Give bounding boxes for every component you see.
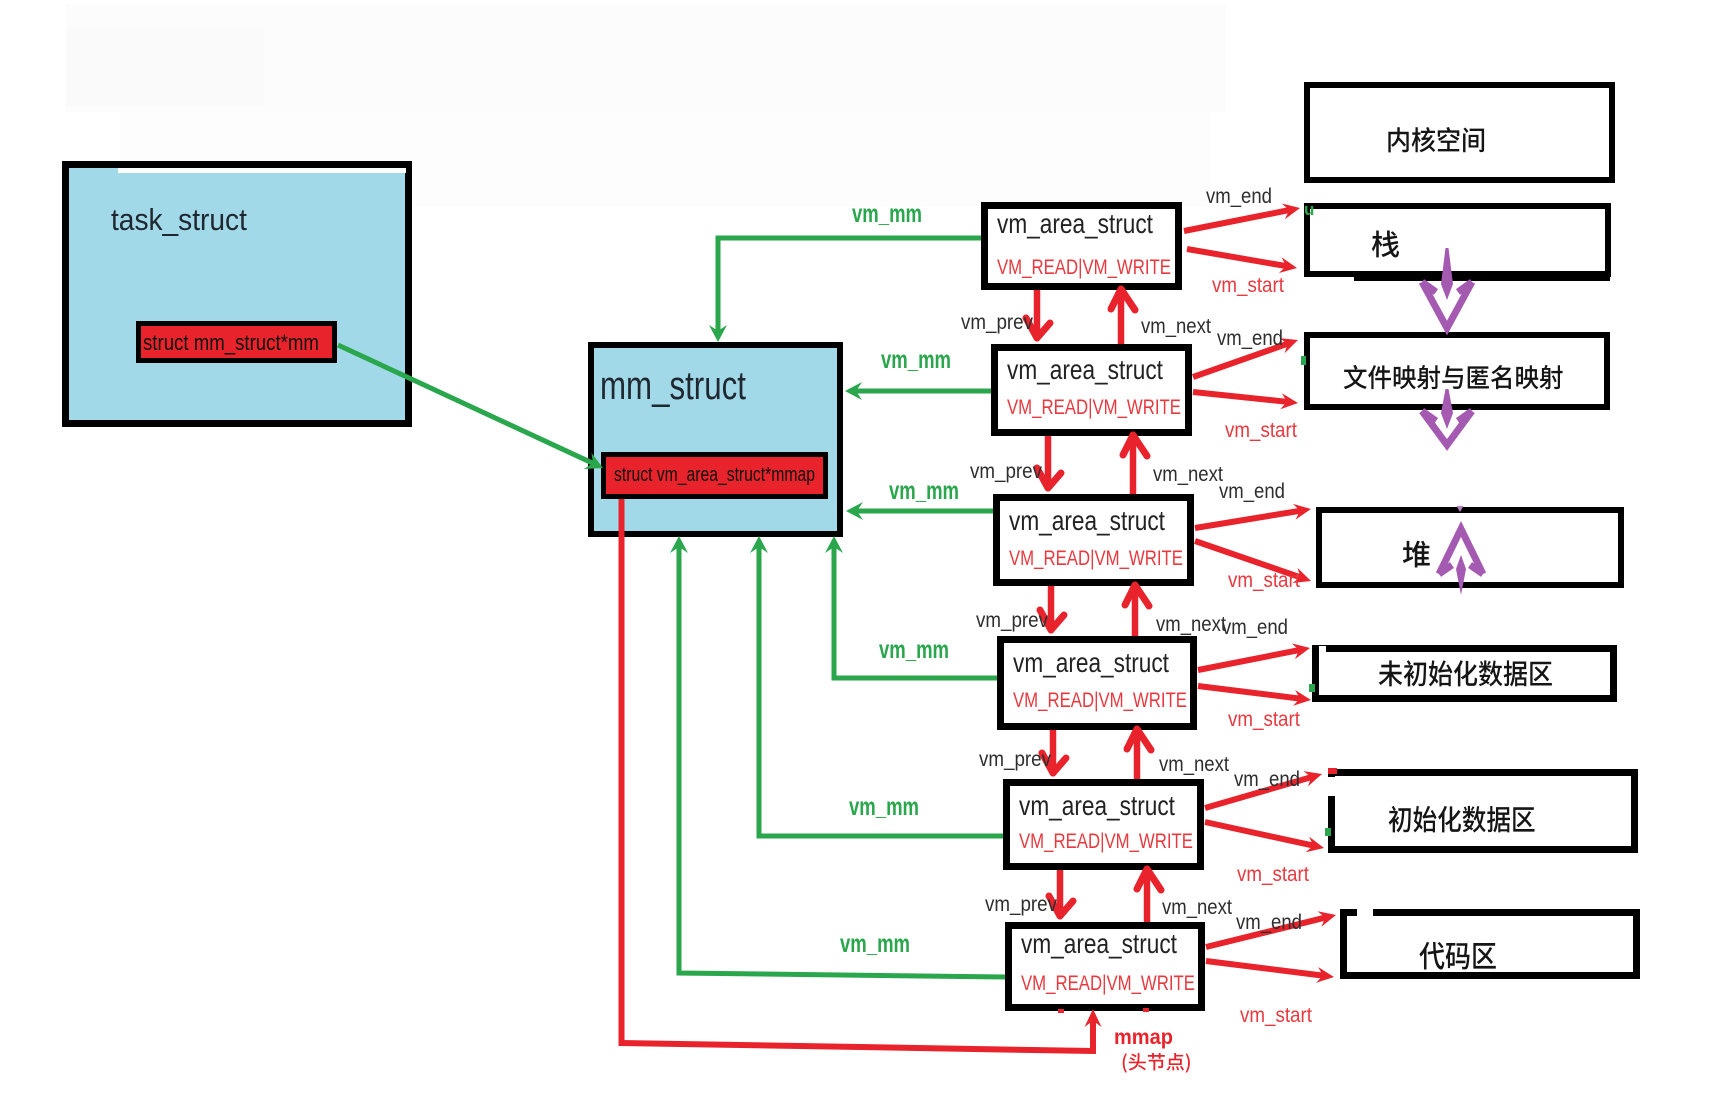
svg-text:vm_prev: vm_prev <box>970 460 1042 483</box>
svg-text:vm_next: vm_next <box>1162 896 1232 919</box>
svg-text:vm_mm: vm_mm <box>879 635 949 663</box>
svg-text:vm_start: vm_start <box>1240 1004 1312 1027</box>
svg-text:mmap: mmap <box>1114 1026 1173 1050</box>
svg-text:vm_end: vm_end <box>1217 327 1283 350</box>
svg-text:vm_area_struct: vm_area_struct <box>1007 355 1163 386</box>
svg-text:vm_prev: vm_prev <box>961 311 1033 334</box>
svg-text:task_struct: task_struct <box>111 203 247 238</box>
svg-text:vm_area_struct: vm_area_struct <box>997 209 1153 240</box>
svg-text:vm_mm: vm_mm <box>840 929 910 957</box>
svg-text:VM_READ|VM_WRITE: VM_READ|VM_WRITE <box>997 256 1171 279</box>
svg-text:vm_end: vm_end <box>1219 480 1285 503</box>
svg-text:vm_area_struct: vm_area_struct <box>1021 929 1177 960</box>
svg-text:vm_prev: vm_prev <box>976 609 1048 632</box>
svg-text:VM_READ|VM_WRITE: VM_READ|VM_WRITE <box>1021 972 1195 995</box>
svg-text:VM_READ|VM_WRITE: VM_READ|VM_WRITE <box>1007 396 1181 419</box>
svg-text:vm_mm: vm_mm <box>852 199 922 227</box>
svg-text:VM_READ|VM_WRITE: VM_READ|VM_WRITE <box>1009 547 1183 570</box>
svg-text:vm_start: vm_start <box>1237 863 1309 886</box>
svg-text:vm_end: vm_end <box>1222 616 1288 639</box>
svg-text:vm_start: vm_start <box>1225 419 1297 442</box>
svg-text:struct mm_struct*mm: struct mm_struct*mm <box>143 332 319 356</box>
svg-text:u: u <box>1304 200 1314 219</box>
svg-text:vm_prev: vm_prev <box>985 893 1057 916</box>
svg-text:vm_area_struct: vm_area_struct <box>1019 791 1175 822</box>
svg-text:mm_struct: mm_struct <box>600 363 746 408</box>
svg-text:vm_start: vm_start <box>1228 708 1300 731</box>
svg-text:vm_mm: vm_mm <box>881 345 951 373</box>
svg-text:vm_next: vm_next <box>1141 315 1211 338</box>
svg-text:struct vm_area_struct*mmap: struct vm_area_struct*mmap <box>614 463 815 486</box>
svg-text:vm_mm: vm_mm <box>889 476 959 504</box>
svg-text:vm_end: vm_end <box>1236 911 1302 934</box>
svg-text:vm_next: vm_next <box>1153 463 1223 486</box>
svg-text:vm_start: vm_start <box>1228 569 1300 592</box>
svg-text:vm_end: vm_end <box>1234 768 1300 791</box>
svg-text:VM_READ|VM_WRITE: VM_READ|VM_WRITE <box>1019 830 1193 853</box>
svg-text:vm_mm: vm_mm <box>849 792 919 820</box>
svg-text:vm_end: vm_end <box>1206 185 1272 208</box>
svg-text:vm_prev: vm_prev <box>979 748 1051 771</box>
svg-text:VM_READ|VM_WRITE: VM_READ|VM_WRITE <box>1013 689 1187 712</box>
svg-text:vm_next: vm_next <box>1159 753 1229 776</box>
svg-text:vm_start: vm_start <box>1212 274 1284 297</box>
svg-text:vm_area_struct: vm_area_struct <box>1009 506 1165 537</box>
svg-text:vm_area_struct: vm_area_struct <box>1013 648 1169 679</box>
svg-text:vm_next: vm_next <box>1156 613 1226 636</box>
